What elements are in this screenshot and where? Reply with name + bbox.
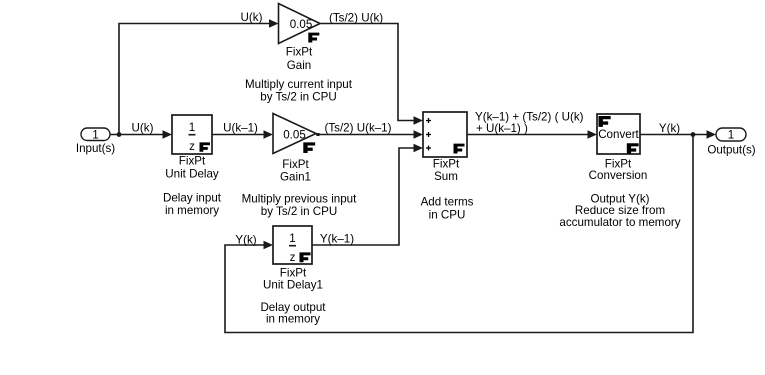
inport 1 Input(s) bbox=[76, 128, 115, 155]
svg-text:0.05: 0.05 bbox=[290, 18, 313, 31]
svg-text:in memory: in memory bbox=[165, 204, 219, 217]
svg-text:Convert: Convert bbox=[598, 128, 639, 141]
svg-text:Unit Delay1: Unit Delay1 bbox=[263, 279, 323, 292]
wire feedback from output junction to unit delay1 bbox=[225, 135, 693, 333]
arrowhead into sum top bbox=[414, 116, 424, 125]
svg-text:FixPt: FixPt bbox=[433, 158, 460, 171]
svg-text:1: 1 bbox=[189, 121, 195, 134]
arrowhead into convert bbox=[588, 130, 598, 139]
svg-text:Y(k): Y(k) bbox=[235, 234, 256, 247]
wire sum output to convert bbox=[467, 134, 589, 136]
arrowhead into sum bottom bbox=[414, 144, 424, 153]
svg-text:U(k): U(k) bbox=[132, 122, 154, 135]
sum FixPt Sum bbox=[423, 112, 467, 183]
unit delay FixPt Unit Delay (1/z) bbox=[165, 115, 219, 181]
outport 1 Output(s) bbox=[707, 128, 755, 157]
arrowhead into gain bbox=[269, 19, 279, 28]
svg-text:Multiply current input: Multiply current input bbox=[245, 78, 353, 91]
svg-text:1: 1 bbox=[728, 129, 734, 142]
svg-text:1: 1 bbox=[289, 232, 295, 245]
wire gain1 output to sum middle input bbox=[316, 134, 415, 136]
unit delay FixPt Unit Delay1 (1/z) bbox=[263, 226, 323, 292]
arrowhead into sum middle bbox=[414, 130, 424, 139]
wire convert output to outport bbox=[640, 134, 708, 136]
arrowhead into unit delay bbox=[163, 130, 173, 139]
svg-text:Input(s): Input(s) bbox=[76, 142, 115, 155]
svg-text:by Ts/2 in CPU: by Ts/2 in CPU bbox=[260, 91, 336, 104]
svg-text:in CPU: in CPU bbox=[429, 209, 466, 222]
svg-text:Unit Delay: Unit Delay bbox=[165, 168, 219, 181]
wire gain output to sum top input bbox=[320, 24, 415, 121]
svg-text:Y(k–1): Y(k–1) bbox=[320, 233, 354, 246]
svg-text:z: z bbox=[290, 251, 296, 264]
arrowhead into outport bbox=[707, 130, 717, 139]
svg-text:Multiply previous input: Multiply previous input bbox=[242, 193, 357, 206]
convert FixPt Conversion bbox=[589, 114, 648, 182]
svg-text:accumulator to memory: accumulator to memory bbox=[559, 216, 680, 229]
svg-text:U(k): U(k) bbox=[241, 11, 263, 24]
arrowhead into unit delay1 bbox=[264, 241, 274, 250]
wire unit delay to gain1 bbox=[212, 134, 265, 136]
svg-text:z: z bbox=[189, 140, 195, 153]
svg-text:U(k–1): U(k–1) bbox=[223, 122, 258, 135]
wire input to unit delay bbox=[110, 134, 164, 136]
svg-text:FixPt: FixPt bbox=[286, 46, 313, 59]
svg-text:Y(k): Y(k) bbox=[659, 122, 680, 135]
svg-text:Add terms: Add terms bbox=[421, 196, 474, 209]
svg-text:by Ts/2 in CPU: by Ts/2 in CPU bbox=[261, 205, 337, 218]
svg-text:FixPt: FixPt bbox=[179, 155, 206, 168]
junction dot at output branch bbox=[691, 132, 696, 137]
port dot at gain1 apex bbox=[317, 133, 320, 136]
svg-text:FixPt: FixPt bbox=[282, 158, 309, 171]
svg-text:1: 1 bbox=[92, 129, 98, 142]
svg-text:0.05: 0.05 bbox=[283, 129, 306, 142]
svg-text:Output(s): Output(s) bbox=[707, 144, 755, 157]
svg-text:Gain: Gain bbox=[287, 59, 312, 72]
arrowhead into gain1 bbox=[264, 130, 274, 139]
svg-text:Sum: Sum bbox=[434, 170, 458, 183]
svg-text:(Ts/2) U(k–1): (Ts/2) U(k–1) bbox=[325, 122, 392, 135]
svg-text:Gain1: Gain1 bbox=[280, 171, 311, 184]
wire unit delay1 output to sum bottom input bbox=[312, 148, 415, 245]
svg-text:in memory: in memory bbox=[266, 313, 320, 326]
svg-text:Delay input: Delay input bbox=[163, 192, 222, 205]
wire branch up to gain bbox=[119, 24, 270, 135]
svg-text:+ U(k–1) ): + U(k–1) ) bbox=[476, 122, 528, 135]
junction dot at input branch bbox=[117, 132, 122, 137]
svg-text:(Ts/2) U(k): (Ts/2) U(k) bbox=[329, 12, 383, 25]
gain FixPt Gain1 (triangle 0.05) bbox=[273, 114, 316, 184]
gain FixPt Gain (triangle 0.05) bbox=[279, 4, 321, 73]
svg-text:Conversion: Conversion bbox=[589, 169, 648, 182]
